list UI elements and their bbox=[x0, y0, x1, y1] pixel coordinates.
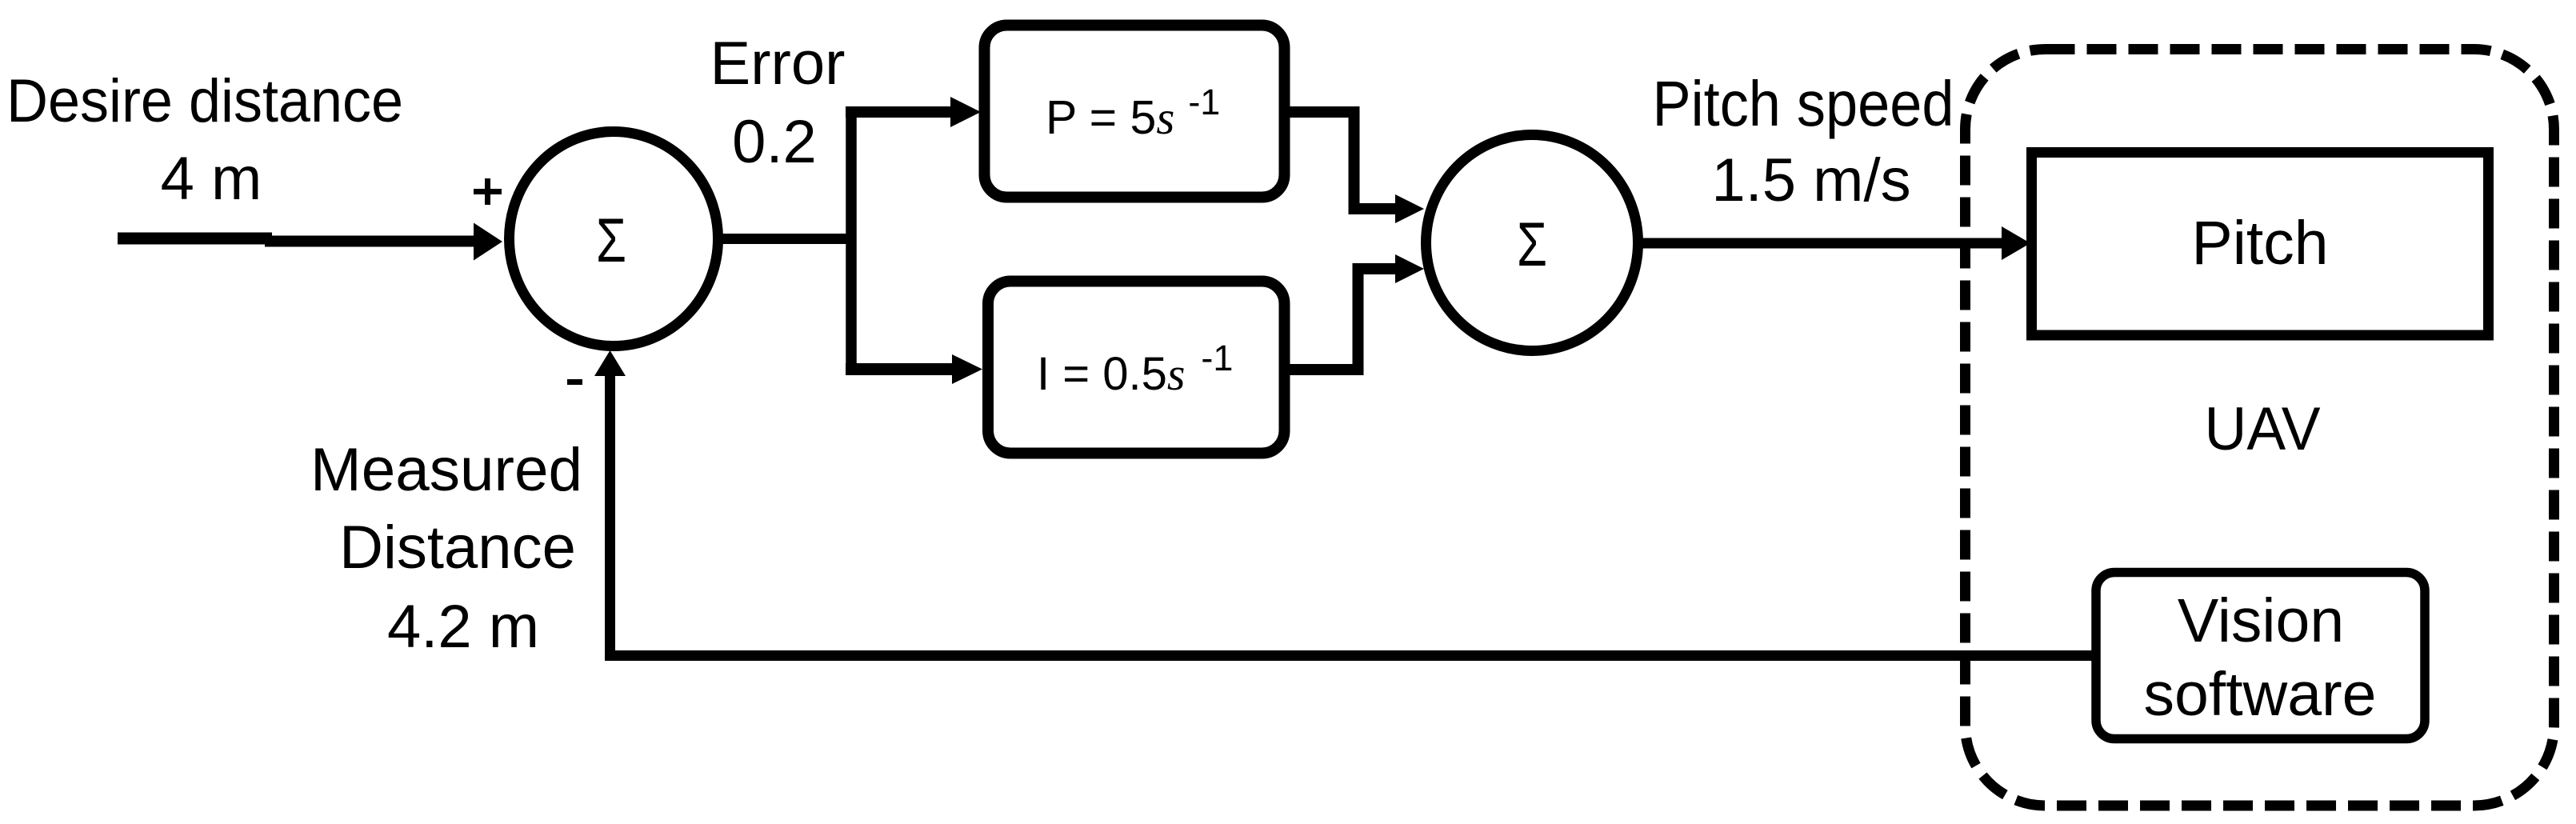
svg-text:1.5 m/s: 1.5 m/s bbox=[1711, 146, 1910, 214]
svg-text:Pitch speed: Pitch speed bbox=[1653, 68, 1954, 139]
svg-text:Vision: Vision bbox=[2178, 586, 2344, 655]
svg-text:4 m: 4 m bbox=[161, 145, 262, 213]
svg-text:UAV: UAV bbox=[2205, 395, 2321, 463]
svg-text:software: software bbox=[2143, 660, 2376, 729]
svg-text:Measured: Measured bbox=[310, 436, 582, 504]
svg-text:Σ: Σ bbox=[596, 205, 626, 275]
svg-text:Pitch: Pitch bbox=[2191, 209, 2328, 278]
svg-text:0.2: 0.2 bbox=[732, 108, 817, 176]
svg-text:Desire distance: Desire distance bbox=[6, 67, 403, 135]
svg-text:Error: Error bbox=[710, 30, 846, 98]
svg-text:Distance: Distance bbox=[339, 514, 576, 582]
svg-text:Σ: Σ bbox=[1517, 209, 1547, 279]
svg-text:4.2 m: 4.2 m bbox=[387, 593, 539, 661]
